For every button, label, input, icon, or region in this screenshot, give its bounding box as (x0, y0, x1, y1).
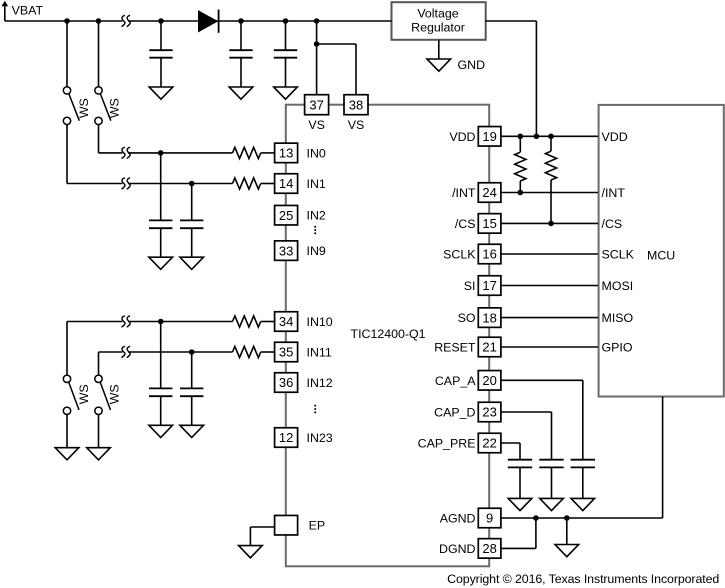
capacitor C1 (149, 21, 172, 87)
label SI (464, 279, 476, 293)
svg-text:37: 37 (309, 97, 323, 112)
ground for C1 (149, 87, 173, 99)
wire IN1 mid (128, 183, 233, 185)
node VBAT label (12, 4, 44, 18)
label MCU MISO (602, 311, 634, 325)
MCU block outline (599, 105, 724, 397)
junction VDD R1 (518, 134, 524, 140)
svg-text:CAP_PRE: CAP_PRE (418, 436, 476, 450)
ground for C2 (229, 87, 253, 99)
junction /CS R2 (548, 221, 554, 227)
wire SCLK net (501, 253, 598, 255)
pin 38 VS (344, 95, 368, 115)
label IN0 (307, 146, 326, 160)
ground for AGND (555, 518, 579, 557)
svg-text:MISO: MISO (602, 311, 634, 325)
label DGND (439, 542, 476, 556)
label MCU SCLK (602, 247, 635, 261)
pin 18 SO (478, 308, 501, 328)
label U1 TIC12400-Q1 (351, 327, 426, 341)
svg-text:TIC12400-Q1: TIC12400-Q1 (351, 327, 426, 341)
svg-text:RESET: RESET (434, 340, 476, 354)
svg-text:DGND: DGND (439, 542, 476, 556)
pin 28 DGND (478, 539, 501, 559)
wire SI-MOSI net (501, 285, 598, 287)
svg-text:VDD: VDD (449, 130, 475, 144)
svg-text:38: 38 (349, 97, 363, 112)
pin 25 IN2 (275, 205, 298, 225)
resistor R1 pullup /INT (515, 136, 526, 192)
wire IN10 mid (128, 321, 233, 323)
svg-text:24: 24 (482, 185, 496, 200)
svg-text:28: 28 (482, 541, 496, 556)
junction rail VS (314, 18, 320, 24)
label SW1 (77, 98, 91, 118)
break mark IN1 (122, 178, 131, 189)
VBAT terminal arrow (2, 1, 9, 21)
ground for SW4 (87, 448, 111, 460)
svg-text:AGND: AGND (440, 511, 476, 525)
ellipsis IN12..IN23 (314, 405, 316, 414)
pin EP (275, 515, 298, 535)
ground for EP (239, 546, 263, 558)
wire IN11 left (99, 352, 123, 375)
junction IN0 C4 (158, 150, 164, 156)
capacitor C10 (571, 460, 595, 499)
svg-text:25: 25 (279, 208, 293, 223)
capacitor C8 (508, 460, 532, 499)
capacitor C2 (229, 21, 252, 87)
svg-text:35: 35 (279, 345, 293, 360)
pin 35 IN11 (275, 342, 298, 362)
pin 16 SCLK (478, 244, 501, 264)
pin 15 /CS (478, 214, 501, 234)
svg-text:VBAT: VBAT (12, 4, 44, 18)
ground for SW3 (55, 448, 79, 460)
svg-text:SO: SO (458, 311, 476, 325)
wire IN0 mid (128, 152, 233, 154)
wire IN11 mid (128, 351, 233, 353)
resistor R6 IN11 (233, 346, 275, 357)
svg-text:IN0: IN0 (307, 146, 326, 160)
svg-text:15: 15 (482, 216, 496, 231)
pin 13 IN0 (275, 143, 298, 163)
pin 22 CAP_PRE (478, 433, 501, 453)
resistor R4 IN1 (233, 178, 275, 189)
label EP (309, 519, 326, 533)
label SW4 (108, 384, 122, 404)
svg-text:Voltage: Voltage (417, 7, 458, 21)
junction rail C3 (283, 18, 289, 24)
pin 17 SI (478, 276, 501, 296)
svg-text:20: 20 (482, 373, 496, 388)
junction /INT R1 (518, 190, 524, 196)
capacitor C6 (149, 322, 172, 426)
ground for C4 (149, 257, 173, 269)
svg-text:Regulator: Regulator (411, 21, 465, 35)
capacitor C7 (180, 352, 203, 425)
wire SW2 to IN0 (99, 125, 123, 153)
resistor R3 IN0 (233, 147, 275, 158)
label CAP_PRE (418, 436, 476, 450)
junction rail sw1 (64, 18, 70, 24)
svg-text:17: 17 (482, 278, 496, 293)
wire VBAT rail right (128, 20, 392, 22)
wire AGND net (501, 397, 663, 519)
svg-text:IN11: IN11 (307, 345, 332, 359)
svg-text:/CS: /CS (455, 217, 476, 231)
pin 36 IN12 (275, 373, 298, 393)
ground for C7 (180, 425, 204, 437)
label IN1 (307, 177, 326, 191)
label IN10 (307, 315, 333, 329)
svg-text:14: 14 (279, 176, 293, 191)
label IN9 (307, 244, 326, 258)
svg-text:IN1: IN1 (307, 177, 326, 191)
pin 20 CAP_A (478, 371, 501, 391)
svg-text:IN2: IN2 (307, 209, 326, 223)
switch SW2 (95, 21, 111, 125)
pin 23 CAP_D (478, 402, 501, 422)
svg-text:33: 33 (279, 243, 293, 258)
break mark IN11 (122, 346, 131, 357)
label AGND (440, 511, 476, 525)
junction IN10 C6 (158, 319, 164, 325)
svg-text:CAP_D: CAP_D (434, 405, 475, 419)
svg-text:GPIO: GPIO (602, 340, 633, 354)
pin 21 RESET (478, 337, 501, 357)
capacitor C9 (539, 460, 563, 499)
label SW2 (108, 98, 122, 118)
svg-text:MOSI: MOSI (602, 279, 634, 293)
wire CAP_D net (501, 412, 552, 460)
wire branch to pin 38 (317, 44, 356, 94)
copyright note (447, 572, 719, 586)
ground for C8 (508, 498, 532, 510)
svg-text:SCLK: SCLK (443, 247, 476, 261)
pin 14 IN1 (275, 174, 298, 194)
resistor R2 pullup /CS (545, 136, 556, 223)
wire EP to ground (250, 527, 274, 546)
pin 19 VDD (478, 127, 501, 147)
ground for C9 (540, 498, 564, 510)
pin 24 /INT (478, 183, 501, 203)
svg-text:IN23: IN23 (307, 431, 333, 445)
svg-text:IN12: IN12 (307, 376, 333, 390)
wire RESET-GPIO net (501, 346, 598, 348)
svg-text:Copyright © 2016, Texas Instru: Copyright © 2016, Texas Instruments Inco… (447, 572, 719, 586)
diode D1 (199, 10, 219, 33)
label MCU MOSI (602, 279, 634, 293)
svg-text:19: 19 (482, 129, 496, 144)
svg-text:16: 16 (482, 247, 496, 262)
ground GND of regulator (427, 40, 451, 71)
label GND (458, 58, 486, 72)
svg-text:/INT: /INT (452, 186, 476, 200)
pin 12 IN23 (275, 428, 298, 448)
svg-text:9: 9 (486, 511, 493, 526)
svg-text:21: 21 (482, 340, 496, 355)
junction rail C1 (158, 18, 164, 24)
label RESET (434, 340, 476, 354)
svg-text:36: 36 (279, 375, 293, 390)
capacitor C3 (274, 21, 297, 87)
svg-text:IN9: IN9 (307, 244, 326, 258)
label IN23 (307, 431, 333, 445)
junction AGND DGND (533, 515, 539, 521)
label /INT (452, 186, 476, 200)
wire CAP_PRE net (501, 443, 520, 460)
switch SW4 (95, 375, 111, 448)
label MCU GPIO (602, 340, 633, 354)
pin 37 VS (305, 95, 329, 115)
svg-text:13: 13 (279, 146, 293, 161)
label MCU /INT (602, 186, 626, 200)
pin 9 AGND (478, 508, 501, 528)
ground for C3 (274, 87, 298, 99)
capacitor C5 (180, 184, 203, 258)
wire DGND net (501, 518, 536, 548)
wire VBAT rail left (5, 20, 123, 22)
ground for C5 (180, 257, 204, 269)
svg-text:WS: WS (77, 98, 91, 118)
wire SO-MISO net (501, 317, 598, 319)
junction IN1 C5 (189, 181, 195, 187)
label VS pin38 (348, 118, 365, 132)
label CAP_A (435, 374, 476, 388)
wire CAP_A net (501, 380, 583, 459)
junction VDD R2 (548, 134, 554, 140)
junction IN11 C7 (189, 349, 195, 355)
label MCU VDD (602, 130, 628, 144)
label IN11 (307, 345, 332, 359)
junction rail sw2 (96, 18, 102, 24)
ground for C6 (149, 425, 173, 437)
wire /INT net (501, 192, 598, 194)
ellipsis IN2..IN9 (314, 226, 316, 235)
switch SW3 (63, 375, 79, 448)
svg-text:CAP_A: CAP_A (435, 374, 476, 388)
capacitor C4 (149, 153, 172, 257)
break mark IN10 (122, 316, 131, 327)
label VS pin37 (308, 118, 325, 132)
ground for C10 (571, 498, 595, 510)
IC U1 TIC12400-Q1 outline (286, 105, 489, 567)
voltage regulator block (392, 2, 486, 40)
svg-text:18: 18 (482, 310, 496, 325)
junction VDD reg (534, 134, 540, 140)
svg-text:WS: WS (108, 98, 122, 118)
label SO (458, 311, 476, 325)
svg-text:WS: WS (108, 384, 122, 404)
break mark IN0 (122, 147, 131, 158)
svg-text:SCLK: SCLK (602, 247, 635, 261)
svg-text:VS: VS (348, 118, 365, 132)
wire VDD net (501, 135, 598, 137)
wire rail to pin 37 (316, 21, 318, 94)
label IN2 (307, 209, 326, 223)
svg-text:VS: VS (308, 118, 325, 132)
svg-text:MCU: MCU (647, 249, 675, 263)
label MCU (647, 249, 675, 263)
label IN12 (307, 376, 333, 390)
svg-text:IN10: IN10 (307, 315, 333, 329)
switch SW1 (63, 21, 79, 125)
pin 34 IN10 (275, 312, 298, 332)
label SW3 (77, 384, 91, 404)
svg-text:34: 34 (279, 314, 293, 329)
label CAP_D (434, 405, 475, 419)
wire SW1 to IN1 (67, 125, 122, 184)
svg-text:12: 12 (279, 430, 293, 445)
label MCU /CS (602, 217, 623, 231)
junction rail C2 (238, 18, 244, 24)
label SCLK (443, 247, 476, 261)
svg-text:WS: WS (77, 384, 91, 404)
svg-text:/INT: /INT (602, 186, 626, 200)
svg-text:VDD: VDD (602, 130, 628, 144)
wire regulator output (486, 21, 537, 136)
junction VS branch (314, 41, 320, 47)
wire IN10 left (67, 322, 122, 375)
label VDD (449, 130, 475, 144)
svg-text:/CS: /CS (602, 217, 623, 231)
break mark on VBAT rail (122, 15, 131, 26)
label /CS (455, 217, 476, 231)
pin 33 IN9 (275, 241, 298, 261)
svg-text:GND: GND (458, 58, 486, 72)
junction AGND gnd (564, 515, 570, 521)
resistor R5 IN10 (233, 316, 275, 327)
wire /CS net (501, 222, 598, 224)
svg-text:SI: SI (464, 279, 476, 293)
svg-text:23: 23 (482, 405, 496, 420)
svg-text:EP: EP (309, 519, 326, 533)
svg-text:22: 22 (482, 436, 496, 451)
